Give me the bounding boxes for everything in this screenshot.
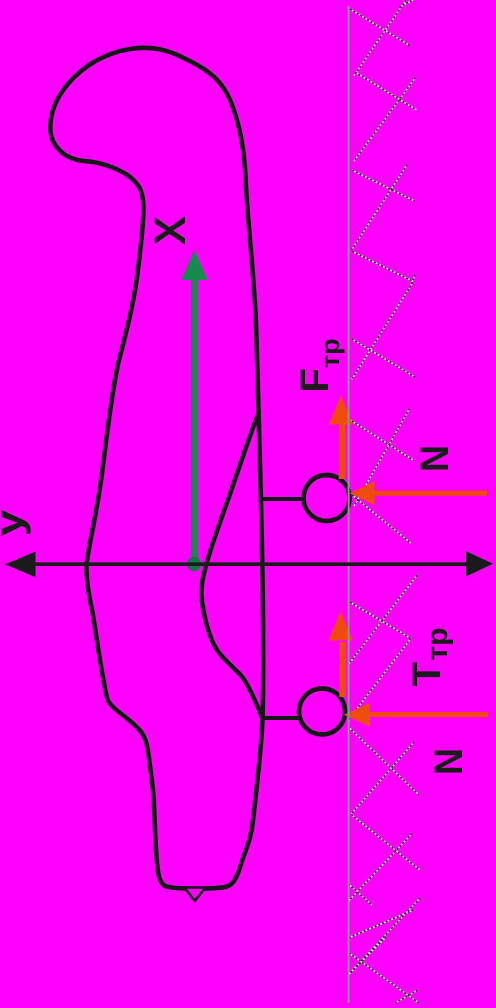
svg-text:y: y: [0, 509, 31, 537]
svg-text:N: N: [413, 445, 457, 472]
svg-text:N: N: [427, 748, 471, 775]
svg-text:x: x: [134, 217, 197, 245]
